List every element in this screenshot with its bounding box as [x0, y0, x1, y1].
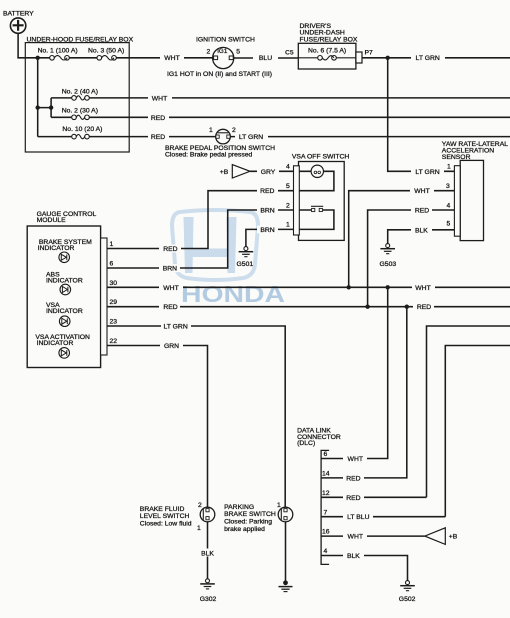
- svg-text:C5: C5: [285, 49, 294, 56]
- wire RED DLC pin12: [321, 496, 426, 498]
- ground G502: [399, 581, 416, 603]
- wire BRN VSA pin1 to G501: [246, 229, 294, 246]
- ground G302: [200, 579, 217, 603]
- svg-text:6: 6: [324, 451, 328, 458]
- svg-text:Closed: Low fluid: Closed: Low fluid: [140, 521, 192, 528]
- svg-text:5: 5: [236, 49, 240, 56]
- node battery junction: [36, 56, 40, 60]
- svg-text:WHT: WHT: [348, 456, 363, 463]
- wire battery to fuse bus: [18, 33, 38, 58]
- node junction WHT-DLC: [386, 285, 390, 289]
- label BRN module pin6: [159, 264, 180, 272]
- wire row2: [51, 97, 510, 99]
- connector P7: [356, 49, 373, 63]
- svg-text:VSA OFF SWITCH: VSA OFF SWITCH: [292, 154, 349, 161]
- VSA OFF switch: [292, 154, 349, 241]
- brake system indicator: [38, 239, 92, 263]
- svg-text:BLU: BLU: [259, 55, 272, 62]
- svg-text:HONDA: HONDA: [181, 281, 285, 307]
- svg-text:30: 30: [110, 280, 118, 287]
- svg-text:IG1 HOT in ON (II) and START (: IG1 HOT in ON (II) and START (III): [167, 71, 272, 78]
- label RED row4: [148, 133, 169, 141]
- VSA activation indicator: [35, 334, 90, 358]
- svg-text:2: 2: [207, 49, 211, 56]
- svg-text:INDICATOR: INDICATOR: [46, 308, 83, 315]
- wire WHT junction down to DLC pin6: [321, 287, 388, 458]
- svg-text:3: 3: [446, 183, 450, 190]
- svg-text:PARKING: PARKING: [224, 504, 254, 511]
- svg-text:1: 1: [277, 502, 281, 509]
- label RED row3: [148, 113, 169, 121]
- svg-text:4: 4: [286, 164, 290, 171]
- label RED module pin29: [159, 303, 180, 311]
- svg-text:12: 12: [322, 490, 330, 497]
- gauge control module: [27, 211, 100, 368]
- node bus junction: [36, 105, 40, 109]
- svg-text:BLK: BLK: [201, 550, 214, 557]
- svg-text:BLK: BLK: [415, 227, 428, 234]
- svg-text:+B: +B: [449, 534, 458, 541]
- wire BLK DLC pin4 to G502: [321, 556, 407, 581]
- wire row1 in box: [38, 57, 157, 59]
- node P7 junction: [386, 56, 390, 60]
- wire LT GRN module pin23 to parking brake switch: [107, 326, 285, 507]
- svg-text:G501: G501: [237, 261, 254, 268]
- svg-text:22: 22: [110, 338, 118, 345]
- parking brake switch: [277, 502, 293, 522]
- label BLK brake fluid: [200, 549, 215, 558]
- label brake pedal position switch: [165, 145, 275, 159]
- svg-text:1: 1: [209, 127, 213, 134]
- wire RED junction down to DLC pin14: [321, 307, 407, 478]
- svg-text:No. 2 (30 A): No. 2 (30 A): [62, 108, 98, 115]
- label BLK yaw pin5: [411, 226, 432, 234]
- svg-text:BATTERY: BATTERY: [3, 10, 34, 17]
- ground parking brake: [279, 580, 293, 591]
- svg-text:LEVEL SWITCH: LEVEL SWITCH: [140, 513, 190, 520]
- svg-text:LT GRN: LT GRN: [415, 169, 439, 176]
- Honda watermark logo: [172, 210, 258, 280]
- svg-text:7: 7: [324, 509, 328, 516]
- brake fluid level switch: [197, 502, 215, 532]
- svg-text:WHT: WHT: [163, 285, 178, 292]
- VSA switch wiring pin2 to pin1: [299, 210, 334, 229]
- svg-text:5: 5: [286, 183, 290, 190]
- driver's under-dash fuse/relay box: [298, 23, 358, 69]
- svg-text:brake applied: brake applied: [224, 526, 265, 533]
- svg-text:5: 5: [447, 220, 451, 227]
- svg-text:IGNITION SWITCH: IGNITION SWITCH: [196, 36, 255, 43]
- label LT GRN row4: [235, 133, 268, 141]
- fuse No.2 (30 A): [62, 108, 98, 120]
- node junction RED-DLC: [405, 305, 409, 309]
- svg-text:+B: +B: [220, 169, 229, 176]
- wire RED yaw pin4: [368, 210, 455, 307]
- label BRN VSA pin2: [257, 206, 278, 214]
- wire BRN module pin6 to VSA pin2: [107, 210, 294, 268]
- svg-text:No. 6 (7.5 A): No. 6 (7.5 A): [308, 48, 346, 55]
- under-hood fuse/relay box: [25, 36, 133, 152]
- svg-text:LT BLU: LT BLU: [347, 514, 370, 521]
- svg-text:16: 16: [322, 529, 330, 536]
- svg-text:WHT: WHT: [152, 95, 167, 102]
- wire RED module pin29 to right edge: [107, 306, 510, 308]
- battery: [3, 10, 34, 33]
- wire P7 to right edge: [362, 57, 510, 59]
- svg-text:No. 10 (20 A): No. 10 (20 A): [62, 126, 102, 133]
- label WHT right row30: [412, 283, 435, 291]
- svg-text:No. 3 (50 A): No. 3 (50 A): [88, 47, 124, 54]
- label BLU row1: [253, 54, 278, 62]
- svg-text:WHT: WHT: [348, 534, 363, 541]
- label WHT row2: [148, 94, 172, 102]
- data link connector (DLC): [297, 428, 341, 565]
- yaw sensor connector strip: [454, 166, 460, 237]
- svg-text:Closed: Parking: Closed: Parking: [224, 519, 272, 526]
- svg-text:RED: RED: [417, 304, 431, 311]
- wire LT GRN right segment to DLC pin12: [427, 326, 510, 497]
- ignition switch: [196, 36, 255, 68]
- svg-text:BRN: BRN: [260, 227, 274, 234]
- fuse No.1 (100 A): [38, 47, 78, 60]
- node junction RED-yaw: [365, 305, 369, 309]
- svg-text:(DLC): (DLC): [297, 440, 315, 447]
- wire WHT yaw pin3: [349, 191, 455, 288]
- svg-text:14: 14: [322, 471, 330, 478]
- label LT GRN row1: [411, 54, 445, 62]
- VSA lamp wiring pin4 to pin5: [299, 171, 334, 190]
- label WHT yaw pin3: [410, 187, 434, 195]
- amplifier +B at DLC: [425, 528, 458, 545]
- svg-text:4: 4: [447, 202, 451, 209]
- svg-text:1: 1: [447, 164, 451, 171]
- svg-text:BRAKE FLUID: BRAKE FLUID: [140, 506, 185, 513]
- yaw rate-lateral acceleration sensor: [442, 141, 508, 241]
- svg-text:6: 6: [110, 261, 114, 268]
- wire WHT module pin30 to right edge: [107, 286, 510, 288]
- svg-text:RED: RED: [346, 475, 360, 482]
- fuse No.2 (40 A): [62, 88, 98, 100]
- wire GRY to VSA pin4: [250, 170, 294, 172]
- svg-text:1: 1: [110, 241, 114, 248]
- svg-text:No. 1 (100 A): No. 1 (100 A): [38, 47, 78, 54]
- label parking brake switch: [224, 504, 276, 533]
- label WHT module pin30: [159, 283, 183, 291]
- VSA connector strip: [294, 166, 300, 235]
- svg-text:4: 4: [324, 548, 328, 555]
- ABS indicator: [46, 272, 83, 295]
- svg-text:RED: RED: [151, 115, 165, 122]
- module connector strip: [101, 238, 107, 355]
- wire row3: [51, 116, 510, 118]
- wire RED module pin1 to VSA pin5: [107, 191, 294, 249]
- ground G503: [380, 244, 397, 268]
- svg-text:WHT: WHT: [414, 188, 429, 195]
- label GRN module pin22: [160, 342, 183, 350]
- svg-text:INDICATOR: INDICATOR: [38, 245, 75, 252]
- svg-text:WHT: WHT: [164, 55, 179, 62]
- svg-text:1: 1: [197, 525, 201, 532]
- amplifier +B to VSA: [220, 165, 250, 178]
- fuse No.3 (50 A): [88, 47, 124, 60]
- wire right segment to DLC pin7: [445, 346, 510, 517]
- VSA switch contact: [311, 206, 323, 211]
- wire row1 to ignition switch: [157, 57, 213, 59]
- label RED DLC pin14: [343, 474, 364, 482]
- svg-text:RED: RED: [415, 208, 429, 215]
- wire labels layer: [148, 54, 445, 560]
- label RED right row29: [413, 303, 434, 311]
- wire BLK brake fluid switch to G302: [207, 522, 209, 579]
- wire bus vertical: [37, 58, 39, 137]
- label RED VSA pin5: [257, 187, 278, 195]
- label BLK DLC pin4: [343, 552, 364, 560]
- svg-text:2: 2: [198, 502, 202, 509]
- svg-text:LT GRN: LT GRN: [163, 324, 187, 331]
- ground G501: [237, 247, 254, 268]
- fuse No.10 (20 A): [62, 126, 102, 139]
- label RED DLC pin12: [343, 493, 364, 501]
- label LT GRN yaw pin1: [411, 167, 444, 175]
- svg-text:BRN: BRN: [163, 266, 177, 273]
- svg-text:RED: RED: [260, 188, 274, 195]
- svg-text:LT GRN: LT GRN: [239, 134, 263, 141]
- wire P7 junction down to yaw pin1: [388, 58, 455, 172]
- svg-text:LT GRN: LT GRN: [416, 55, 440, 62]
- svg-text:No. 2 (40 A): No. 2 (40 A): [62, 88, 98, 95]
- wire ignition to under-dash box: [234, 57, 298, 59]
- svg-text:MODULE: MODULE: [37, 217, 67, 224]
- label WHT DLC pin6: [343, 455, 367, 463]
- fuse No.6 (7.5 A): [298, 48, 356, 61]
- svg-text:Closed: Brake pedal pressed: Closed: Brake pedal pressed: [165, 152, 252, 159]
- svg-text:FUSE/RELAY BOX: FUSE/RELAY BOX: [300, 36, 358, 43]
- VSA indicator bulb: [311, 165, 323, 177]
- svg-text:BRN: BRN: [260, 208, 274, 215]
- svg-text:BLK: BLK: [347, 553, 360, 560]
- label LT BLU DLC pin7: [343, 513, 373, 521]
- wire parking brake switch to ground: [285, 522, 287, 581]
- svg-text:GRN: GRN: [164, 343, 179, 350]
- svg-text:29: 29: [110, 299, 118, 306]
- svg-text:WHT: WHT: [415, 285, 430, 292]
- wire WHT DLC pin16 to +B: [321, 535, 425, 537]
- brake pedal position switch: [209, 127, 236, 144]
- svg-text:INDICATOR: INDICATOR: [37, 340, 74, 347]
- svg-text:GRY: GRY: [261, 169, 276, 176]
- svg-text:23: 23: [110, 319, 118, 326]
- wire GRN module pin22 to brake fluid switch: [107, 346, 208, 508]
- label WHT DLC pin16: [343, 532, 367, 540]
- svg-text:2: 2: [286, 202, 290, 209]
- label WHT row1: [160, 54, 184, 62]
- svg-text:P7: P7: [365, 49, 374, 56]
- svg-text:IG1: IG1: [217, 48, 228, 55]
- svg-text:G502: G502: [399, 596, 416, 603]
- svg-text:RED: RED: [163, 304, 177, 311]
- label brake fluid level switch: [140, 506, 192, 528]
- label RED module pin1: [159, 245, 181, 253]
- wire LT BLU DLC pin7: [321, 516, 445, 518]
- svg-text:RED: RED: [346, 495, 360, 502]
- svg-text:BRAKE SWITCH: BRAKE SWITCH: [224, 511, 276, 518]
- node junction WHT-yaw: [347, 285, 351, 289]
- wire BLK yaw pin5 to G503: [388, 230, 455, 244]
- label GRY: [257, 167, 279, 175]
- label LT GRN module pin23: [161, 322, 191, 330]
- node branch junction: [49, 105, 53, 109]
- VSA indicator: [46, 302, 83, 326]
- svg-text:INDICATOR: INDICATOR: [46, 278, 83, 285]
- wire row4: [38, 136, 510, 138]
- wire bus branch to rows 2-3: [38, 98, 51, 117]
- svg-text:1: 1: [286, 222, 290, 229]
- svg-text:RED: RED: [151, 134, 165, 141]
- label RED yaw pin4: [411, 206, 432, 214]
- label BRN VSA pin1: [257, 226, 278, 234]
- svg-text:RED: RED: [163, 246, 177, 253]
- svg-text:G302: G302: [200, 596, 217, 603]
- svg-text:G503: G503: [380, 261, 397, 268]
